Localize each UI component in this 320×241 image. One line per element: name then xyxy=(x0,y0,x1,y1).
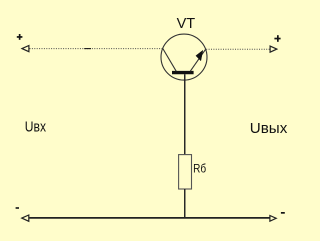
svg-text:Uвых: Uвых xyxy=(250,121,287,137)
label + (top left terminal polarity) xyxy=(17,34,23,40)
wire: resistor to bottom rail xyxy=(184,189,186,218)
transistor VT collector line (right) xyxy=(190,49,205,71)
wire: bottom rail (solid) xyxy=(29,217,270,219)
label - (bottom left terminal polarity) xyxy=(16,207,19,209)
resistor R6 body xyxy=(179,155,192,189)
terminal arrow, top right output xyxy=(270,46,277,52)
transistor VT base bar xyxy=(172,71,194,74)
wire: top rail right segment (dotted) xyxy=(206,48,270,50)
wire: dash on top rail xyxy=(84,48,91,50)
wire: base lead from bar to resistor xyxy=(184,74,186,154)
terminal arrow, bottom right xyxy=(270,216,276,222)
terminal arrow, top left input xyxy=(22,46,29,52)
wire: top rail left segment (dotted) xyxy=(30,48,163,50)
label + (top right terminal polarity) xyxy=(274,35,280,42)
transistor VT body circle xyxy=(161,34,207,80)
label - (bottom right terminal polarity) xyxy=(281,212,285,214)
svg-text:VT: VT xyxy=(177,16,196,32)
transistor VT emitter line (left) xyxy=(163,48,177,71)
terminal arrow, bottom left xyxy=(22,215,29,221)
transistor VT collector arrowhead xyxy=(196,50,203,60)
svg-text:Rб: Rб xyxy=(193,161,206,175)
svg-text:Uвх: Uвх xyxy=(25,120,46,136)
